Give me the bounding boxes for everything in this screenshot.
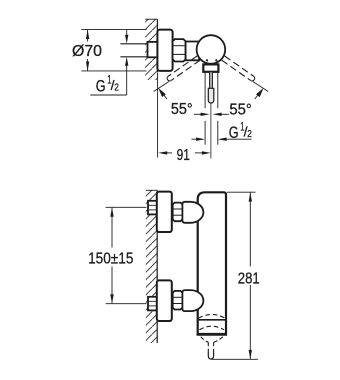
union nut hex bottom (side view)	[173, 291, 183, 310]
svg-text:55°: 55°	[171, 101, 193, 118]
dim 91	[158, 147, 211, 164]
outlet tip	[208, 352, 213, 360]
pivot dots	[206, 59, 208, 61]
escutcheon bottom (side view)	[157, 280, 172, 321]
label G1/2 (right)	[229, 121, 252, 142]
outlet thread extension lines (below lever)	[205, 121, 218, 145]
55 deg extension line right	[253, 82, 268, 92]
dim G1/2 arrows (top view bottom)	[192, 138, 252, 141]
escutcheon top (side view)	[157, 192, 172, 232]
body (side view)	[197, 192, 227, 334]
outlet thread hidden edges (top view)	[205, 72, 218, 108]
dim 281	[238, 192, 260, 359]
union nut hex top (side view)	[173, 203, 183, 222]
dashed lever at 55 deg left	[167, 56, 200, 81]
label G1/2 (left)	[90, 75, 126, 96]
svg-text:G: G	[229, 124, 239, 142]
angular arrow right	[255, 88, 264, 99]
collar line	[198, 319, 226, 321]
dim: O70 extension lines	[81, 29, 146, 31]
centerline (top view)	[210, 103, 212, 159]
outlet hidden funnel + stem (dashed)	[201, 337, 223, 352]
svg-text:2: 2	[114, 81, 119, 93]
dim: O70 arrows	[86, 30, 89, 71]
dim: G1/2 thread leader (top view left)	[125, 30, 128, 95]
55 deg pointer arrows at lever	[194, 113, 229, 116]
wall face extension line for 91	[157, 73, 159, 158]
dim 150+-15	[88, 207, 133, 303]
55 deg extension line left	[154, 82, 169, 92]
escutcheon (top view)	[157, 30, 172, 71]
lever stem (top view)	[210, 72, 213, 89]
svg-text:281: 281	[238, 271, 260, 288]
svg-text:Ø70: Ø70	[72, 43, 102, 60]
wall thread top (side view)	[148, 201, 157, 215]
wall (top view, hatched)	[145, 19, 157, 80]
svg-text:91: 91	[177, 147, 190, 164]
wall (side view, hatched)	[146, 190, 157, 343]
svg-text:55°: 55°	[229, 101, 252, 118]
dim 150+-15 extension lines	[106, 206, 147, 208]
supply pipe (top view)	[120, 44, 148, 57]
hidden arcs in body bottom	[199, 314, 226, 318]
union nut hex (top view)	[173, 39, 186, 61]
wall thread bottom (side view)	[148, 297, 157, 311]
svg-text:G: G	[96, 77, 106, 95]
mixer body circle (top view)	[197, 35, 226, 64]
svg-text:150±15: 150±15	[88, 250, 133, 267]
lever collar (top view)	[203, 64, 218, 71]
union dome top (side view)	[182, 202, 203, 223]
union dome bottom (side view)	[182, 290, 203, 311]
lever paddle (top view)	[208, 88, 214, 103]
wall thread G1/2 (top view)	[148, 42, 158, 57]
body arm (top view)	[186, 42, 200, 61]
dashed lever at 55 deg right	[222, 56, 255, 81]
svg-text:2: 2	[247, 128, 252, 140]
dim 281 extension lines	[227, 191, 255, 193]
angular arrow left	[158, 88, 167, 99]
